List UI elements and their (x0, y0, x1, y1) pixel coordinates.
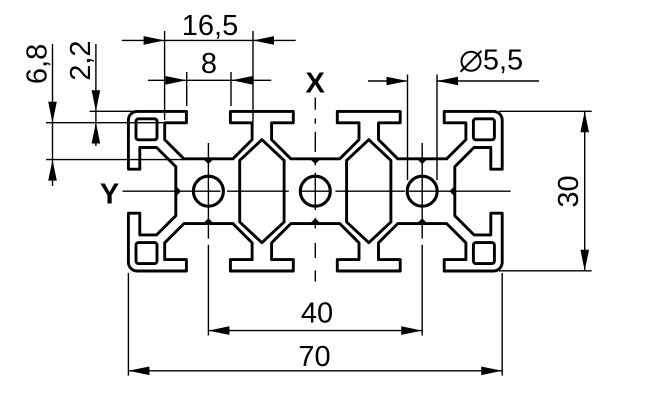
svg-text:Y: Y (100, 179, 119, 211)
svg-text:X: X (306, 67, 326, 99)
V-notch top slot 3 (419, 159, 426, 163)
svg-text:40: 40 (301, 298, 333, 330)
hexagon cavity left (240, 140, 284, 243)
arrowheads dim 5,5 (387, 77, 408, 86)
V-notch bottom slot 1 (205, 220, 212, 224)
corner screw-channel square top-left (136, 119, 157, 140)
svg-text:2,2: 2,2 (65, 40, 97, 80)
diameter symbol (461, 51, 482, 72)
bore hole center (d 5.5) (300, 176, 330, 206)
X centerline (dashed) (314, 98, 316, 282)
centerline tick hole right (421, 143, 423, 239)
profile outer contour with T-slots (128, 111, 502, 271)
dimension texts (22, 10, 585, 373)
arrowheads dim 2,2 (92, 90, 101, 111)
corner screw-channel square top-right (473, 119, 494, 140)
V-notch right end slot (451, 188, 455, 195)
dim 5,5 lines (368, 75, 539, 181)
corner screw-channel square bottom-left (136, 243, 157, 264)
arrowheads dim 8 (166, 76, 187, 85)
dim 16,5 lines (122, 31, 296, 122)
dim 2,2 lines (46, 44, 188, 146)
V-notch bottom slot 3 (419, 220, 426, 224)
V-notch top slot 1 (205, 159, 212, 163)
svg-text:30: 30 (553, 175, 585, 207)
dim 30 lines (499, 111, 592, 270)
arrowheads dim 16,5 (144, 36, 165, 45)
axis labels (100, 67, 326, 210)
corner screw-channel square bottom-right (473, 243, 494, 264)
svg-text:16,5: 16,5 (182, 10, 238, 42)
arrowheads dim 6,8 (48, 102, 57, 123)
bore hole left (d 5.5) (193, 176, 223, 206)
dim 40 lines (208, 245, 422, 336)
V-notch left end slot (176, 188, 180, 195)
V-notch top slot 2 (312, 159, 319, 163)
arrowheads (48, 36, 589, 375)
Y centerline (dashed) (123, 190, 511, 192)
hexagon cavity right (347, 140, 391, 243)
svg-text:5,5: 5,5 (483, 45, 523, 77)
svg-text:70: 70 (298, 341, 330, 373)
arrowheads dim 30 (580, 111, 589, 132)
svg-text:8: 8 (201, 48, 217, 80)
thin construction / dimension lines (46, 31, 592, 376)
dim 6,8 lines (46, 44, 185, 186)
dim 70 lines (128, 273, 502, 376)
V-notch bottom slot 2 (312, 220, 319, 224)
bore hole right (d 5.5) (407, 176, 437, 206)
centerline tick hole left (207, 143, 209, 239)
arrowheads dim 70 (128, 367, 149, 376)
svg-text:6,8: 6,8 (22, 44, 54, 84)
arrowheads dim 40 (208, 326, 229, 335)
dim 8 lines (148, 72, 271, 106)
